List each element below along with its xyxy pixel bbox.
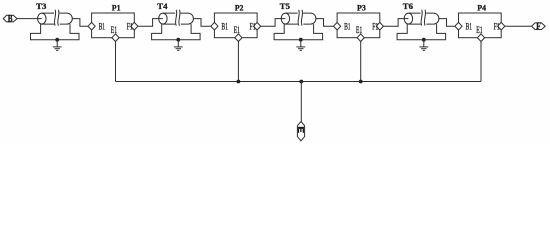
subcircuit block P3 [337,13,380,38]
pin B1 of P2 [211,21,228,31]
svg-text:B1: B1 [99,21,106,31]
svg-text:P1: P1 [112,3,121,13]
svg-text:F1: F1 [494,21,500,31]
ground (T6 shield) [419,38,428,51]
wire T3 shield bracket [31,24,80,40]
pin E1 of P2 [234,25,242,42]
wire P1.F1 to T4 [138,19,163,27]
pin B1 of P4 [455,21,472,31]
wire T5 shield bracket [274,24,323,40]
svg-text:T5: T5 [280,1,290,11]
junction [299,80,303,84]
svg-text:T6: T6 [403,1,414,11]
off-page connector B [3,15,17,25]
wire T4 shield bracket [152,24,201,40]
wire P2.E1 to E bus [237,42,239,82]
svg-text:B1: B1 [344,21,351,31]
transformer T3 (shielded cable symbol) [38,10,73,26]
svg-text:E1: E1 [356,25,363,35]
wire T3 to P1.B1 [72,19,88,27]
wire P3.F1 to T6 [383,19,408,27]
wire P4.E1 to E bus [480,42,482,82]
wire P2.F1 to T5 [261,19,286,27]
svg-text:T3: T3 [36,1,46,11]
subcircuit block P4 [459,13,502,38]
subcircuit block P1 [92,13,135,38]
wire E bus to connector E [300,82,302,122]
pin F1 of P1 [127,21,138,31]
off-page connector F [532,22,546,32]
junction [359,80,363,84]
wire T6 to P4.B1 [439,19,455,27]
transformer T6 (shielded cable symbol) [404,10,439,26]
pin B1 of P1 [88,21,105,31]
svg-text:E1: E1 [234,25,241,35]
svg-text:T4: T4 [157,1,168,11]
wire P1.E1 to E bus [115,42,117,82]
svg-text:E1: E1 [476,25,483,35]
pin F1 of P3 [372,21,383,31]
svg-text:P4: P4 [477,3,486,13]
svg-text:B1: B1 [221,21,228,31]
pin E1 of P3 [356,25,364,42]
svg-text:P2: P2 [235,3,244,13]
wire T4 to P2.B1 [193,19,210,27]
wire P3.E1 to E bus [360,42,362,82]
svg-text:P3: P3 [357,3,366,13]
svg-text:F: F [536,22,541,32]
off-page connector E [297,122,304,141]
pin F1 of P4 [494,21,505,31]
ground (T5 shield) [296,38,305,51]
wire P4.F1 to F [505,25,532,27]
transformer T5 (shielded cable symbol) [281,10,316,26]
svg-text:F1: F1 [372,21,378,31]
svg-text:B: B [8,15,13,25]
pin B1 of P3 [334,21,351,31]
wire B to T3 [17,18,42,20]
pin E1 of P4 [476,25,484,42]
svg-text:F1: F1 [127,21,133,31]
pin F1 of P2 [250,21,261,31]
ground (T4 shield) [174,38,183,51]
junction [237,80,241,84]
pin E1 of P1 [111,25,119,42]
subcircuit block P2 [214,13,257,38]
transformer T4 (shielded cable symbol) [159,10,194,26]
wire E bus [116,81,482,83]
wire T5 to P3.B1 [316,19,334,27]
svg-text:B1: B1 [466,21,473,31]
wire T6 shield bracket [397,24,446,40]
ground (T3 shield) [53,38,62,51]
svg-text:F1: F1 [250,21,256,31]
svg-text:E1: E1 [111,25,118,35]
